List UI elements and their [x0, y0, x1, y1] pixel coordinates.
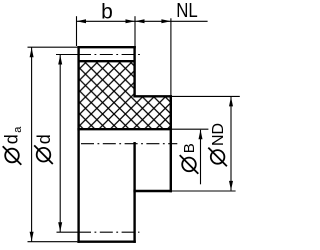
svg-text:b: b: [101, 1, 113, 24]
svg-text:a: a: [12, 126, 24, 133]
svg-text:d: d: [34, 134, 54, 144]
svg-text:B: B: [181, 143, 198, 153]
svg-text:d: d: [2, 134, 22, 144]
svg-text:ND: ND: [210, 123, 227, 146]
svg-text:NL: NL: [176, 0, 198, 22]
